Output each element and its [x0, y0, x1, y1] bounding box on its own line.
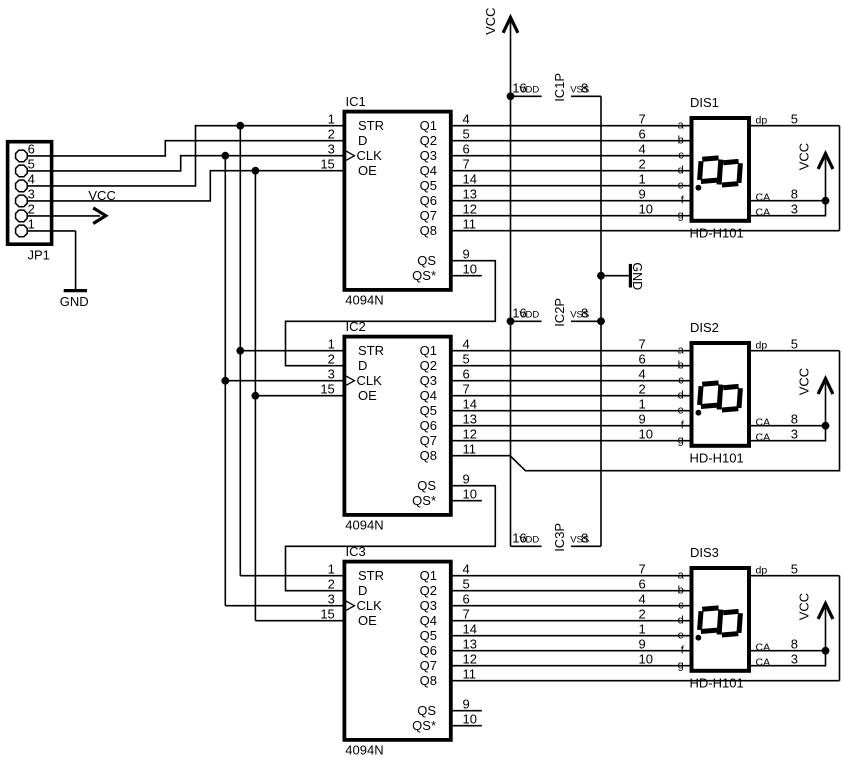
- wire DIS1 CA pin 3: [751, 201, 826, 216]
- svg-text:OE: OE: [358, 613, 377, 628]
- wire JP1 pin5 to IC1 CLK: [28, 156, 345, 171]
- power stub VSS pin 8 of IC2P: [571, 320, 601, 322]
- svg-text:a: a: [678, 344, 685, 356]
- wire DIS2 dp pin: [751, 350, 840, 352]
- svg-text:2: 2: [28, 202, 35, 217]
- svg-text:VCC: VCC: [796, 368, 811, 395]
- DIS1 decimal point dot: [696, 185, 702, 191]
- wire IC1 Q5 to DIS1 segment e: [451, 185, 691, 187]
- svg-text:4094N: 4094N: [345, 292, 383, 307]
- svg-text:Q4: Q4: [420, 163, 437, 178]
- svg-text:3: 3: [791, 651, 798, 666]
- svg-text:CA: CA: [756, 657, 771, 669]
- svg-text:HD-H101: HD-H101: [690, 450, 744, 465]
- svg-text:CLK: CLK: [357, 148, 383, 163]
- wire DIS2 CA pin 8: [751, 425, 826, 427]
- svg-text:b: b: [678, 584, 684, 596]
- svg-text:Q8: Q8: [420, 673, 437, 688]
- svg-text:CA: CA: [756, 207, 771, 219]
- DIS1 digit segment d (left loop bottom): [701, 180, 717, 181]
- wire JP1 pin1 to GND: [28, 230, 76, 232]
- JP1 pin 3 pad: [16, 195, 28, 207]
- svg-text:5: 5: [28, 157, 35, 172]
- svg-text:9: 9: [463, 696, 470, 711]
- svg-text:5: 5: [791, 336, 798, 351]
- DIS2 digit segment a (right loop top): [723, 386, 738, 387]
- svg-text:DIS2: DIS2: [690, 320, 719, 335]
- wire CLK to IC2: [225, 380, 344, 382]
- svg-text:VDD: VDD: [519, 535, 539, 546]
- svg-text:4: 4: [639, 141, 646, 156]
- svg-text:3: 3: [791, 426, 798, 441]
- svg-text:3: 3: [328, 591, 335, 606]
- DIS2 digit segment e (left loop left): [700, 386, 701, 405]
- node DIS1 CA junction: [822, 197, 830, 205]
- seven segment display DIS2 body: [692, 343, 750, 446]
- svg-text:VCC: VCC: [796, 593, 811, 620]
- wire JP1 pin4 to IC1 STR: [28, 126, 345, 186]
- svg-text:Q6: Q6: [420, 193, 437, 208]
- svg-text:e: e: [678, 629, 684, 641]
- wire IC2 Q6 to DIS2 segment f: [451, 425, 691, 427]
- svg-text:4: 4: [639, 366, 646, 381]
- svg-text:CA: CA: [756, 192, 771, 204]
- svg-text:QS*: QS*: [412, 493, 436, 508]
- svg-text:VDD: VDD: [519, 85, 539, 96]
- wire IC3 Q2 to DIS3 segment b: [451, 590, 691, 592]
- wire IC2 QS to IC3 D: [286, 486, 496, 591]
- wire IC2 Q8 to DIS2 dp route with jog: [451, 351, 840, 471]
- DIS3 digit segment c (right loop bottom): [722, 634, 738, 635]
- DIS1 digit segment a (right loop top): [723, 161, 738, 162]
- IC1 clock wedge on CLK pin: [345, 151, 355, 161]
- svg-text:CA: CA: [756, 432, 771, 444]
- JP1 pin 1 pad: [16, 225, 28, 237]
- svg-text:g: g: [678, 209, 684, 221]
- DIS2 digit segment f (left loop top): [702, 383, 718, 384]
- seven segment display DIS1 body: [692, 118, 750, 221]
- svg-text:Q7: Q7: [420, 658, 437, 673]
- svg-text:IC1P: IC1P: [552, 73, 567, 102]
- svg-text:IC1: IC1: [346, 94, 366, 109]
- svg-text:9: 9: [463, 471, 470, 486]
- JP1 pin 6 pad: [16, 150, 28, 162]
- svg-text:15: 15: [320, 381, 334, 396]
- shift register IC2 body: [344, 337, 450, 515]
- svg-text:14: 14: [463, 621, 477, 636]
- svg-text:3: 3: [328, 366, 335, 381]
- svg-text:1: 1: [328, 561, 335, 576]
- wire IC1 Q2 to DIS1 segment b: [451, 140, 691, 142]
- svg-text:1: 1: [639, 171, 646, 186]
- supply symbol VCC right-pointing arrow at JP1: [93, 208, 106, 224]
- wire IC2 Q5 to DIS2 segment e: [451, 410, 691, 412]
- IC1 QS* stub wire: [451, 275, 482, 277]
- wire IC2 Q1 to DIS2 segment a: [451, 350, 691, 352]
- wire IC1 Q7 to DIS1 segment g: [451, 215, 691, 217]
- svg-text:8: 8: [791, 636, 798, 651]
- DIS2 digit segment g (middle bar): [719, 385, 721, 410]
- svg-text:Q5: Q5: [420, 628, 437, 643]
- svg-text:9: 9: [639, 411, 646, 426]
- svg-text:7: 7: [639, 561, 646, 576]
- DIS1 digit segment c (right loop bottom): [722, 184, 738, 185]
- svg-text:Q7: Q7: [420, 208, 437, 223]
- node VDD junction IC1P: [507, 92, 515, 100]
- node OE junction at IC2: [252, 392, 260, 400]
- svg-text:2: 2: [328, 351, 335, 366]
- seven segment display DIS3 body: [692, 568, 750, 671]
- svg-text:4: 4: [639, 591, 646, 606]
- wire IC1 Q3 to DIS1 segment c: [451, 155, 691, 157]
- wire OE to IC3: [255, 620, 344, 622]
- svg-text:Q6: Q6: [420, 643, 437, 658]
- wire VCC vertical bus: [510, 21, 512, 546]
- svg-text:VDD: VDD: [519, 310, 539, 321]
- svg-text:Q7: Q7: [420, 433, 437, 448]
- IC3 clock wedge on CLK pin: [345, 601, 355, 611]
- svg-text:c: c: [678, 149, 684, 161]
- svg-text:d: d: [678, 389, 684, 401]
- svg-text:e: e: [678, 179, 684, 191]
- wire IC1 Q6 to DIS1 segment f: [451, 200, 691, 202]
- svg-text:D: D: [358, 133, 367, 148]
- svg-text:6: 6: [639, 576, 646, 591]
- svg-text:9: 9: [639, 186, 646, 201]
- svg-text:Q6: Q6: [420, 418, 437, 433]
- svg-text:3: 3: [328, 141, 335, 156]
- DIS2 digit segment b (right loop right): [739, 388, 740, 408]
- svg-text:5: 5: [463, 576, 470, 591]
- svg-text:b: b: [678, 359, 684, 371]
- JP1 pin 4 pad: [16, 180, 28, 192]
- svg-text:6: 6: [639, 351, 646, 366]
- node STR junction at IC1: [236, 122, 244, 130]
- svg-text:5: 5: [791, 111, 798, 126]
- svg-text:6: 6: [28, 142, 35, 157]
- shift register IC3 body: [344, 562, 450, 740]
- svg-text:b: b: [678, 134, 684, 146]
- svg-text:6: 6: [463, 141, 470, 156]
- svg-text:2: 2: [328, 126, 335, 141]
- svg-text:11: 11: [463, 216, 477, 231]
- JP1 pin 2 pad: [16, 210, 28, 222]
- node CLK junction at IC1: [221, 152, 229, 160]
- svg-text:4: 4: [463, 336, 470, 351]
- svg-text:g: g: [678, 434, 684, 446]
- svg-text:Q4: Q4: [420, 388, 437, 403]
- svg-text:5: 5: [791, 561, 798, 576]
- wire to GND2: [601, 275, 629, 277]
- wire IC3 Q8 to DIS3 dp route: [451, 680, 840, 682]
- svg-text:4: 4: [463, 561, 470, 576]
- svg-text:10: 10: [639, 426, 653, 441]
- supply symbol VCC arrow at DIS2: [825, 383, 827, 426]
- node STR junction at IC2: [236, 347, 244, 355]
- svg-text:STR: STR: [358, 118, 384, 133]
- wire IC3 Q5 to DIS3 segment e: [451, 635, 691, 637]
- svg-text:QS: QS: [417, 253, 436, 268]
- svg-text:c: c: [678, 374, 684, 386]
- svg-text:QS*: QS*: [412, 268, 436, 283]
- DIS3 digit segment f (left loop top): [702, 608, 718, 609]
- wire IC3 QS stub: [451, 710, 482, 712]
- svg-text:1: 1: [28, 217, 35, 232]
- svg-text:1: 1: [639, 396, 646, 411]
- power stub VDD pin 16 of IC3P: [511, 545, 542, 547]
- svg-text:2: 2: [639, 381, 646, 396]
- power stub VSS pin 8 of IC3P: [571, 545, 601, 547]
- svg-text:13: 13: [463, 411, 477, 426]
- svg-text:Q2: Q2: [420, 583, 437, 598]
- svg-text:2: 2: [639, 156, 646, 171]
- DIS3 decimal point dot: [696, 635, 702, 641]
- wire IC2 Q3 to DIS2 segment c: [451, 380, 691, 382]
- svg-text:CLK: CLK: [357, 598, 383, 613]
- node VSS junction IC2P: [597, 317, 605, 325]
- svg-text:Q3: Q3: [420, 373, 437, 388]
- svg-text:CLK: CLK: [357, 373, 383, 388]
- wire JP1 pin2 to VCC: [28, 215, 100, 217]
- wire IC1 Q8 to DIS1 dp route: [451, 230, 840, 232]
- ground symbol GND1 bar: [64, 289, 87, 292]
- svg-text:GND: GND: [630, 262, 644, 290]
- DIS3 digit segment g (middle bar): [719, 610, 721, 635]
- svg-text:2: 2: [328, 576, 335, 591]
- svg-text:Q3: Q3: [420, 148, 437, 163]
- svg-text:Q3: Q3: [420, 598, 437, 613]
- ground symbol GND2 bar: [629, 264, 632, 288]
- svg-text:Q2: Q2: [420, 133, 437, 148]
- DIS1 digit segment f (left loop top): [702, 158, 718, 159]
- svg-text:12: 12: [463, 201, 477, 216]
- svg-text:DIS1: DIS1: [690, 95, 719, 110]
- wire DIS1 CA pin 8: [751, 200, 826, 202]
- wire IC3 Q1 to DIS3 segment a: [451, 575, 691, 577]
- svg-text:Q1: Q1: [420, 568, 437, 583]
- svg-text:Q5: Q5: [420, 403, 437, 418]
- svg-text:JP1: JP1: [28, 248, 50, 263]
- svg-text:14: 14: [463, 171, 477, 186]
- wire CLK bus vertical: [224, 156, 226, 606]
- node DIS2 CA junction: [822, 422, 830, 430]
- svg-text:4: 4: [463, 111, 470, 126]
- svg-text:4: 4: [28, 172, 35, 187]
- svg-text:CA: CA: [756, 417, 771, 429]
- svg-text:D: D: [358, 583, 367, 598]
- svg-text:Q4: Q4: [420, 613, 437, 628]
- svg-text:12: 12: [463, 426, 477, 441]
- JP1 pin 5 pad: [16, 165, 28, 177]
- svg-text:DIS3: DIS3: [690, 545, 719, 560]
- svg-text:3: 3: [28, 187, 35, 202]
- wire STR bus vertical: [239, 126, 241, 576]
- supply symbol VCC arrow top: [503, 17, 518, 32]
- svg-text:d: d: [678, 614, 684, 626]
- wire IC2 Q2 to DIS2 segment b: [451, 365, 691, 367]
- svg-text:a: a: [678, 119, 685, 131]
- svg-text:1: 1: [328, 111, 335, 126]
- wire IC1 QS to IC2 D: [286, 261, 496, 366]
- shift register IC1 body: [344, 112, 450, 290]
- svg-text:HD-H101: HD-H101: [690, 675, 744, 690]
- svg-text:8: 8: [581, 531, 588, 546]
- IC2 clock wedge on CLK pin: [345, 376, 355, 386]
- svg-text:5: 5: [463, 126, 470, 141]
- svg-text:10: 10: [463, 486, 477, 501]
- svg-text:GND: GND: [60, 294, 89, 309]
- DIS1 digit segment e (left loop left): [700, 161, 701, 180]
- svg-text:a: a: [678, 569, 685, 581]
- svg-text:Q2: Q2: [420, 358, 437, 373]
- wire DIS1 dp pin: [751, 125, 840, 127]
- svg-text:QS*: QS*: [412, 718, 436, 733]
- svg-text:10: 10: [463, 261, 477, 276]
- svg-text:QS: QS: [417, 703, 436, 718]
- wire IC2 Q7 to DIS2 segment g: [451, 440, 691, 442]
- DIS1 digit segment b (right loop right): [739, 163, 740, 183]
- DIS3 digit segment b (right loop right): [739, 613, 740, 633]
- wire JP1 pin6 to IC1 D: [28, 141, 345, 156]
- svg-text:e: e: [678, 404, 684, 416]
- svg-text:15: 15: [320, 156, 334, 171]
- svg-text:OE: OE: [358, 388, 377, 403]
- svg-text:7: 7: [463, 156, 470, 171]
- wire CLK to IC3: [225, 605, 344, 607]
- DIS2 digit segment c (right loop bottom): [722, 409, 738, 410]
- svg-text:Q8: Q8: [420, 223, 437, 238]
- node GND tap junction: [597, 272, 605, 280]
- DIS2 digit segment d (left loop bottom): [701, 405, 717, 406]
- svg-text:c: c: [678, 599, 684, 611]
- DIS2 decimal point dot: [696, 410, 702, 416]
- svg-text:8: 8: [791, 411, 798, 426]
- wire OE to IC2: [255, 395, 344, 397]
- wire IC1 Q1 to DIS1 segment a: [451, 125, 691, 127]
- power stub VDD pin 16 of IC2P: [511, 320, 542, 322]
- svg-text:Q1: Q1: [420, 118, 437, 133]
- svg-text:7: 7: [639, 336, 646, 351]
- svg-text:14: 14: [463, 396, 477, 411]
- svg-text:7: 7: [463, 381, 470, 396]
- wire IC3 Q6 to DIS3 segment f: [451, 650, 691, 652]
- svg-text:6: 6: [639, 126, 646, 141]
- svg-text:OE: OE: [358, 163, 377, 178]
- svg-text:6: 6: [463, 366, 470, 381]
- wire DIS3 dp pin: [751, 575, 840, 577]
- svg-text:g: g: [678, 659, 684, 671]
- node DIS3 CA junction: [822, 647, 830, 655]
- svg-text:6: 6: [463, 591, 470, 606]
- svg-text:11: 11: [463, 441, 477, 456]
- wire JP1 pin3 to IC1 OE: [28, 171, 345, 201]
- wire IC2 Q4 to DIS2 segment d: [451, 395, 691, 397]
- svg-text:7: 7: [463, 606, 470, 621]
- wire VSS vertical bus: [600, 96, 602, 546]
- wire OE bus vertical: [254, 171, 256, 621]
- svg-text:d: d: [678, 164, 684, 176]
- svg-text:3: 3: [791, 201, 798, 216]
- svg-text:8: 8: [581, 81, 588, 96]
- svg-text:VCC: VCC: [796, 143, 811, 170]
- svg-text:4094N: 4094N: [345, 517, 383, 532]
- svg-text:10: 10: [639, 201, 653, 216]
- svg-text:4094N: 4094N: [345, 742, 383, 757]
- wire IC1 Q4 to DIS1 segment d: [451, 170, 691, 172]
- svg-text:13: 13: [463, 186, 477, 201]
- DIS3 digit segment d (left loop bottom): [701, 630, 717, 631]
- svg-text:STR: STR: [358, 568, 384, 583]
- svg-text:11: 11: [463, 666, 477, 681]
- svg-text:D: D: [358, 358, 367, 373]
- DIS1 digit segment g (middle bar): [719, 160, 721, 185]
- svg-text:CA: CA: [756, 642, 771, 654]
- svg-text:QS: QS: [417, 478, 436, 493]
- svg-text:Q1: Q1: [420, 343, 437, 358]
- power stub VDD pin 16 of IC1P: [511, 95, 542, 97]
- svg-text:2: 2: [639, 606, 646, 621]
- svg-text:8: 8: [791, 186, 798, 201]
- svg-text:13: 13: [463, 636, 477, 651]
- supply symbol VCC arrow at DIS1: [825, 158, 827, 201]
- svg-text:HD-H101: HD-H101: [690, 225, 744, 240]
- svg-text:8: 8: [581, 306, 588, 321]
- svg-text:Q8: Q8: [420, 448, 437, 463]
- supply symbol VCC arrow at DIS3: [825, 608, 827, 651]
- svg-text:IC3P: IC3P: [552, 523, 567, 552]
- svg-text:10: 10: [463, 711, 477, 726]
- wire IC3 Q7 to DIS3 segment g: [451, 665, 691, 667]
- svg-text:10: 10: [639, 651, 653, 666]
- svg-text:15: 15: [320, 606, 334, 621]
- svg-text:7: 7: [639, 111, 646, 126]
- svg-text:STR: STR: [358, 343, 384, 358]
- wire STR to IC2: [240, 350, 344, 352]
- node OE junction at IC1: [252, 167, 260, 175]
- wire DIS3 CA pin 8: [751, 650, 826, 652]
- svg-text:5: 5: [463, 351, 470, 366]
- svg-text:IC2P: IC2P: [552, 298, 567, 327]
- wire STR to IC3: [240, 575, 344, 577]
- node VDD junction IC2P: [507, 317, 515, 325]
- svg-text:12: 12: [463, 651, 477, 666]
- connector JP1 body: [8, 142, 52, 245]
- svg-text:VCC: VCC: [483, 7, 498, 34]
- power stub VSS pin 8 of IC1P: [571, 95, 601, 97]
- wire DIS2 CA pin 3: [751, 426, 826, 441]
- IC2 QS* stub wire: [451, 500, 482, 502]
- svg-text:1: 1: [328, 336, 335, 351]
- svg-text:9: 9: [639, 636, 646, 651]
- IC3 QS* stub wire: [451, 725, 482, 727]
- svg-text:1: 1: [639, 621, 646, 636]
- node CLK junction at IC2: [221, 377, 229, 385]
- wire IC3 Q3 to DIS3 segment c: [451, 605, 691, 607]
- svg-text:Q5: Q5: [420, 178, 437, 193]
- wire DIS3 CA pin 3: [751, 651, 826, 666]
- DIS3 digit segment a (right loop top): [723, 611, 738, 612]
- wire IC3 Q4 to DIS3 segment d: [451, 620, 691, 622]
- svg-text:9: 9: [463, 246, 470, 261]
- DIS3 digit segment e (left loop left): [700, 611, 701, 630]
